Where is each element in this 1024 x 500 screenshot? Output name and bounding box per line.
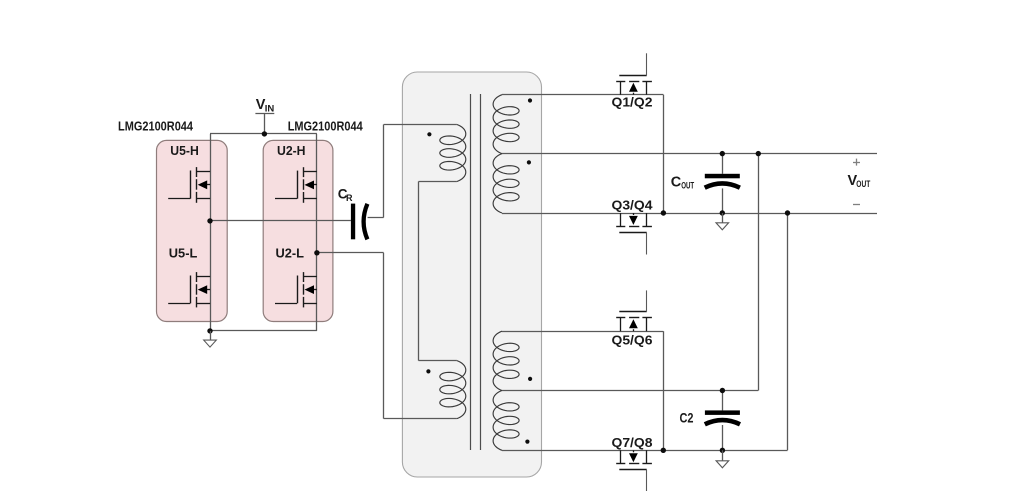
label CR <box>338 187 353 203</box>
node U5 source junction <box>207 328 212 333</box>
primary winding P1 <box>440 125 466 182</box>
label VOUT <box>848 173 871 190</box>
primary winding P2 <box>440 361 466 419</box>
wire ground stem <box>210 331 212 340</box>
wire P2 top lead <box>419 360 457 362</box>
wire U2 switch node <box>317 252 384 254</box>
svg-text:C: C <box>671 175 682 191</box>
node C2 top junction <box>720 388 725 393</box>
svg-text:LMG2100R044: LMG2100R044 <box>288 119 364 134</box>
transformer core <box>471 94 481 450</box>
capacitor COUT <box>705 174 740 188</box>
S4 polarity dot <box>525 440 529 444</box>
node tie plus junction <box>756 151 761 156</box>
gan half-bridge module U5 body <box>157 140 228 321</box>
svg-text:C2: C2 <box>680 410 694 425</box>
svg-text:Q5/Q6: Q5/Q6 <box>612 332 653 347</box>
wire C2 bottom lead <box>722 425 724 450</box>
wire S3 top rail to Q5/Q6 <box>502 331 663 333</box>
node U2 switch node <box>314 250 319 255</box>
wire C2 top lead <box>722 391 724 411</box>
wire bottom rail VOUT- <box>502 213 877 215</box>
wire P1 top lead <box>384 124 457 126</box>
wire U2 drain-source column <box>316 134 318 331</box>
wire riser to P1 top <box>383 125 385 218</box>
label VIN <box>256 97 275 115</box>
VIN port bar <box>255 113 274 115</box>
node lower Q link junction <box>661 448 666 453</box>
secondary winding S2 <box>493 154 519 213</box>
wire VIN bus <box>210 133 317 135</box>
wire COUT ground stem <box>722 213 724 223</box>
svg-text:Q1/Q2: Q1/Q2 <box>612 94 653 109</box>
wire COUT bottom lead <box>722 188 724 213</box>
node COUT top junction <box>720 151 725 156</box>
ground primary <box>204 340 217 347</box>
svg-text:U5-H: U5-H <box>170 143 199 158</box>
transistor Q5/Q6 <box>616 290 652 331</box>
svg-text:U5-L: U5-L <box>169 245 198 260</box>
wire lower center tap rail <box>502 390 758 392</box>
wire Q5/Q6 drop link <box>663 331 665 450</box>
S1 polarity dot <box>528 98 532 102</box>
transistor Q1/Q2 <box>616 53 652 94</box>
svg-text:Q7/Q8: Q7/Q8 <box>612 435 653 450</box>
svg-text:IN: IN <box>265 104 275 115</box>
svg-text:Q3/Q4: Q3/Q4 <box>612 198 654 213</box>
wire center tap rail VOUT+ <box>502 153 877 155</box>
node VIN junction <box>262 131 267 136</box>
node COUT bottom junction <box>720 210 725 215</box>
wire C2 ground stem <box>722 450 724 461</box>
transistor Q3/Q4 <box>616 213 652 255</box>
wire upper-lower tie riser plus <box>758 154 760 391</box>
svg-text:LMG2100R044: LMG2100R044 <box>118 119 194 134</box>
ground C2 <box>716 461 729 468</box>
wire COUT top lead <box>722 154 724 174</box>
P2 polarity dot <box>426 369 430 373</box>
wire ground rail <box>210 330 317 332</box>
P1 polarity dot <box>427 132 431 136</box>
transistor Q7/Q8 <box>616 450 652 491</box>
secondary winding S4 <box>493 391 519 451</box>
wire upper-lower tie riser minus <box>787 213 789 450</box>
wire lower bottom rail <box>502 450 788 452</box>
wire Q1/Q2 drop link <box>663 95 665 213</box>
wire CR to riser <box>368 217 384 219</box>
node U5 switch node <box>207 218 212 223</box>
ground COUT <box>716 223 729 230</box>
label VOUT plus sign <box>853 159 860 166</box>
wire P1-P2 series link <box>418 182 420 361</box>
S3 polarity dot <box>528 377 532 381</box>
wire U2 switch node riser <box>383 253 385 419</box>
wire U5 switch node to CR <box>210 220 351 222</box>
label VOUT minus sign <box>853 204 860 206</box>
svg-text:OUT: OUT <box>681 180 694 191</box>
capacitor C2 <box>705 410 740 424</box>
wire VIN stem <box>264 114 266 134</box>
node Q link junction <box>661 210 666 215</box>
transistor U5-L <box>168 272 210 307</box>
transistor U2-L <box>275 272 317 307</box>
node C2 bottom junction <box>720 448 725 453</box>
label COUT <box>671 175 695 192</box>
secondary winding S1 <box>493 95 519 154</box>
S2 polarity dot <box>527 160 531 164</box>
transistor U2-H <box>275 167 317 203</box>
svg-text:R: R <box>346 193 353 203</box>
wire P1 bottom lead <box>419 181 457 183</box>
capacitor CR <box>351 204 368 240</box>
wire P2 bottom lead <box>384 418 457 420</box>
gan half-bridge module U2 body <box>263 140 333 321</box>
transformer body T1 <box>402 72 541 477</box>
secondary winding S3 <box>493 331 519 390</box>
transistor U5-H <box>168 167 210 203</box>
node tie minus junction <box>785 210 790 215</box>
wire U5 drain-source column <box>210 134 212 331</box>
svg-text:U2-H: U2-H <box>277 143 306 158</box>
svg-text:U2-L: U2-L <box>276 245 305 260</box>
wire S1 top rail to Q1/Q2 <box>502 94 663 96</box>
svg-text:OUT: OUT <box>856 179 870 190</box>
